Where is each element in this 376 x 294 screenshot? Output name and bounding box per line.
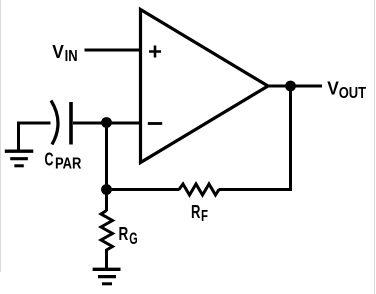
- capacitor CPAR: [51, 101, 71, 145]
- node B: feedback junction: [101, 184, 112, 195]
- wire VIN to op-amp plus input: [85, 49, 142, 52]
- wire node B to resistor RF: [107, 188, 180, 191]
- wire RG to bottom ground: [105, 249, 108, 269]
- op-amp U1: [141, 10, 269, 163]
- label CPAR: [45, 148, 82, 172]
- wire op-amp output to VOUT: [266, 85, 322, 88]
- svg-text:G: G: [129, 230, 137, 248]
- label VOUT: [327, 78, 366, 103]
- svg-text:OUT: OUT: [339, 85, 367, 102]
- resistor RF: [179, 184, 219, 195]
- resistor RG: [101, 211, 113, 251]
- output node junction: [285, 81, 296, 92]
- label VIN: [52, 41, 77, 65]
- svg-text:V: V: [52, 41, 64, 62]
- node A: inverting input junction: [101, 117, 112, 128]
- wire down to left ground: [17, 122, 20, 152]
- op-amp plus input marker: [149, 46, 161, 58]
- svg-text:V: V: [327, 78, 339, 99]
- svg-text:IN: IN: [65, 48, 78, 65]
- label RG: [119, 223, 138, 248]
- wire node A down to node B: [105, 123, 108, 190]
- label RF: [191, 201, 208, 225]
- left ground: [5, 151, 34, 166]
- svg-text:PAR: PAR: [55, 156, 82, 173]
- svg-text:R: R: [191, 201, 200, 222]
- wire RF to output node: [219, 86, 291, 190]
- svg-text:F: F: [201, 208, 208, 225]
- left page edge: [0, 0, 2, 272]
- right page edge: [374, 0, 376, 294]
- op-amp minus input marker: [148, 122, 162, 125]
- svg-text:R: R: [119, 223, 129, 244]
- wire node B down to resistor RG: [105, 188, 108, 211]
- wire capacitor to op-amp minus input: [73, 122, 141, 125]
- wire left of capacitor CPAR: [17, 122, 51, 125]
- svg-text:C: C: [45, 148, 54, 169]
- bottom ground: [93, 269, 121, 284]
